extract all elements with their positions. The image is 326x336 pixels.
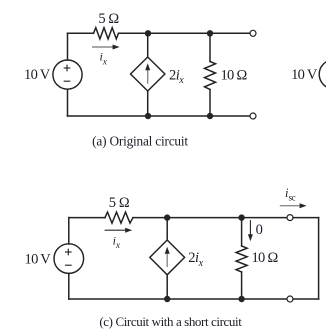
dependent current source U2 diamond (c) bbox=[150, 240, 185, 275]
svg-text:2ix: 2ix bbox=[169, 67, 184, 86]
svg-text:(c) Circuit with a short circu: (c) Circuit with a short circuit bbox=[99, 314, 242, 329]
svg-text:0: 0 bbox=[256, 222, 263, 238]
VS2 plus sign bbox=[66, 249, 72, 255]
wire dep source bottom lead (a) bbox=[147, 91, 149, 116]
current arrow ix head (a) bbox=[113, 45, 120, 50]
svg-text:10 V: 10 V bbox=[24, 67, 51, 83]
voltage source VS2 10V circle (c) bbox=[54, 244, 84, 274]
svg-text:10 V: 10 V bbox=[291, 67, 318, 83]
current arrow ix head (c) bbox=[125, 228, 132, 233]
current arrow ix shaft gray (a) bbox=[93, 46, 116, 48]
VS2 minus sign bbox=[66, 264, 72, 266]
terminal open circle top (c) bbox=[287, 215, 293, 221]
current arrow 0 head (c) bbox=[248, 234, 253, 241]
wire bottom-left vertical (c) bbox=[68, 273, 70, 299]
current arrow ix shaft black (c) bbox=[105, 229, 128, 231]
node dot bottom of R4 (c) bbox=[238, 296, 244, 302]
terminal open circle bottom (c) bbox=[287, 296, 293, 302]
svg-text:ix: ix bbox=[100, 50, 107, 67]
svg-text:(a) Original circuit: (a) Original circuit bbox=[92, 133, 188, 148]
wire top-left vertical (c) bbox=[68, 218, 70, 244]
svg-text:10 Ω: 10 Ω bbox=[251, 250, 278, 266]
U1 arrow shaft gray (a) bbox=[147, 69, 149, 84]
terminal open circle top (a) bbox=[250, 30, 256, 36]
node dot top of dependent source (c) bbox=[164, 214, 170, 220]
node dot bottom of dependent source (a) bbox=[145, 113, 151, 119]
node dot top of R2 (a) bbox=[207, 30, 213, 36]
svg-text:10 Ω: 10 Ω bbox=[220, 67, 247, 83]
resistor R2 10ohm zigzag (a) bbox=[205, 62, 216, 90]
VS1 minus sign bbox=[64, 80, 70, 82]
current arrow 0 through R4 shaft (c) bbox=[249, 221, 251, 238]
VS1 plus sign bbox=[64, 65, 70, 71]
node dot top of dependent source (a) bbox=[145, 30, 151, 36]
wire top rail middle segment (a) bbox=[119, 32, 250, 34]
node dot top of R4 (c) bbox=[238, 214, 244, 220]
voltage source VS1 10V circle (a) bbox=[53, 60, 82, 89]
wire top rail left segment (a) bbox=[68, 32, 94, 34]
dependent current source U1 diamond (a) bbox=[131, 57, 165, 91]
wire top rail middle segment (c) bbox=[133, 217, 287, 219]
node dot bottom of dependent source (c) bbox=[164, 296, 170, 302]
wire dep source bottom lead (c) bbox=[166, 275, 168, 299]
wire R4 bottom lead (c) bbox=[241, 272, 243, 299]
wire dep source top lead (c) bbox=[166, 218, 168, 240]
svg-text:ix: ix bbox=[113, 233, 120, 250]
terminal open circle bottom (a) bbox=[250, 113, 256, 119]
wire top rail left segment (c) bbox=[69, 217, 105, 219]
partial circle of cropped source (b) at right edge bbox=[319, 60, 326, 89]
wire R4 top lead (c) bbox=[241, 218, 243, 246]
svg-text:isc: isc bbox=[285, 186, 296, 203]
U1 arrowhead (a) bbox=[145, 63, 150, 70]
wire bottom rail (a) bbox=[68, 115, 250, 117]
svg-text:5 Ω: 5 Ω bbox=[98, 11, 119, 27]
wire dep source top lead (a) bbox=[147, 33, 149, 57]
wire short-circuit bottom segment (c) bbox=[293, 298, 319, 300]
U2 arrow shaft gray (c) bbox=[166, 252, 168, 266]
wire bottom-left vertical (a) bbox=[67, 89, 69, 116]
resistor R3 5ohm zigzag (c) bbox=[105, 212, 133, 223]
resistor R4 10ohm zigzag (c) bbox=[236, 246, 247, 272]
svg-text:5 Ω: 5 Ω bbox=[109, 195, 130, 211]
wire short-circuit right vertical (c) bbox=[318, 218, 320, 299]
wire short-circuit top segment (c) bbox=[293, 217, 319, 219]
node dot bottom of R2 (a) bbox=[207, 113, 213, 119]
svg-text:10 V: 10 V bbox=[25, 252, 52, 268]
wire bottom rail (c) bbox=[69, 298, 287, 300]
current arrow isc head (c) bbox=[300, 203, 307, 208]
wire R2 top lead (a) bbox=[209, 33, 211, 61]
wire R2 bottom lead (a) bbox=[209, 90, 211, 117]
svg-text:2ix: 2ix bbox=[188, 250, 203, 269]
U2 arrowhead (c) bbox=[165, 247, 170, 254]
wire top-left vertical (a) bbox=[67, 33, 69, 60]
current arrow isc shaft gray (c) bbox=[281, 205, 303, 207]
resistor R1 5ohm zigzag (a) bbox=[94, 28, 119, 39]
